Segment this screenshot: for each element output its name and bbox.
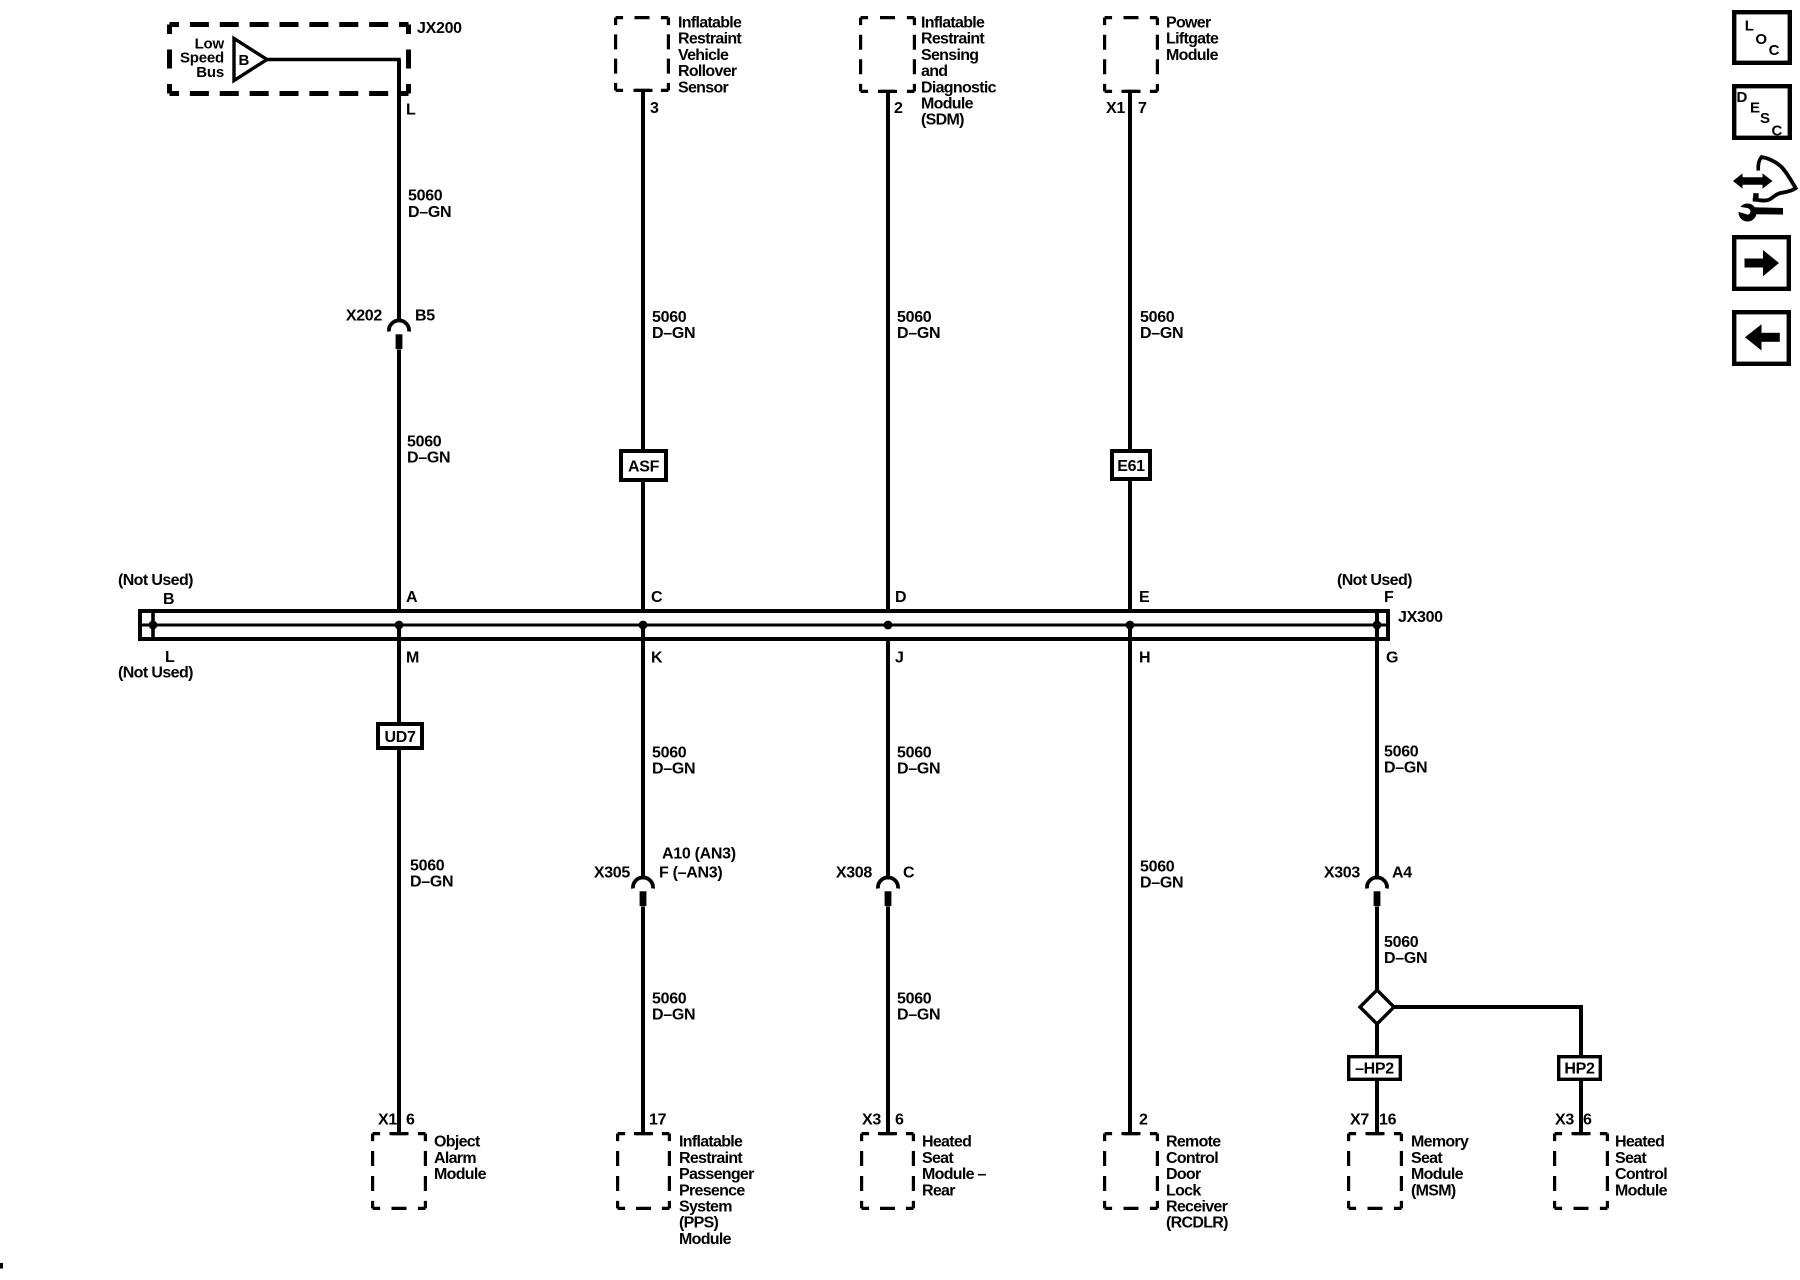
wire label 5060 D-GN (col G upper): [1384, 744, 1427, 777]
svg-text:5060: 5060: [408, 188, 443, 205]
svg-text:X1: X1: [378, 1112, 397, 1129]
svg-text:D–GN: D–GN: [1384, 760, 1427, 777]
svg-text:RemoteControlDoorLockReceiver(: RemoteControlDoorLockReceiver(RCDLR): [1166, 1134, 1228, 1232]
label E: [1139, 589, 1150, 606]
pin L label: [406, 102, 416, 119]
pin label X7: [1350, 1112, 1369, 1129]
svg-text:L: L: [406, 102, 416, 119]
svg-text:A: A: [406, 589, 418, 606]
svg-text:5060: 5060: [407, 434, 442, 451]
wire liftgate to E61: [1128, 93, 1132, 451]
hotlink icon curve: [1753, 157, 1796, 201]
svg-text:C: C: [1772, 122, 1783, 139]
pin 2 label (RCDLR): [1139, 1112, 1148, 1129]
svg-text:HeatedSeatModule –Rear: HeatedSeatModule –Rear: [922, 1134, 987, 1200]
wire X305 to PPS module: [641, 907, 645, 1135]
pin 3 label: [650, 100, 659, 117]
LOC button box: [1734, 12, 1790, 63]
svg-text:A4: A4: [1392, 865, 1412, 882]
svg-text:–HP2: –HP2: [1355, 1061, 1394, 1078]
power liftgate text: [1166, 15, 1219, 64]
object alarm module text: [434, 1134, 487, 1183]
pin 17 label: [649, 1112, 667, 1129]
label J: [895, 649, 904, 666]
back arrow button: [1734, 312, 1789, 364]
heated seat control module dashed box: [1555, 1132, 1608, 1208]
memory seat module dashed box: [1349, 1132, 1402, 1208]
svg-text:LowSpeedBus: LowSpeedBus: [180, 35, 225, 80]
wire label 5060 D-GN (col M): [410, 857, 453, 890]
splice pack JX300 bus bar outline: [140, 611, 1388, 639]
svg-text:D–GN: D–GN: [897, 325, 940, 342]
inline connector X303: [1367, 877, 1387, 906]
DESC button box: [1734, 86, 1790, 139]
svg-text:O: O: [1755, 31, 1767, 48]
label M: [406, 649, 419, 666]
inline connector X202 pin B5: [389, 320, 409, 349]
wire ASF to bus node C: [641, 480, 645, 639]
heated seat module rear dashed box: [862, 1132, 914, 1208]
heated seat module rear text: [922, 1134, 987, 1200]
svg-text:B5: B5: [415, 308, 435, 325]
svg-text:MemorySeatModule(MSM): MemorySeatModule(MSM): [1411, 1134, 1469, 1200]
wire SDM to bus node D: [886, 93, 890, 639]
svg-text:HP2: HP2: [1564, 1061, 1595, 1078]
svg-text:2: 2: [894, 100, 903, 117]
svg-text:6: 6: [895, 1112, 904, 1129]
label B5: [415, 308, 435, 325]
svg-text:J: J: [895, 649, 904, 666]
label B: [163, 591, 174, 608]
svg-text:S: S: [1760, 110, 1770, 127]
svg-text:L: L: [165, 649, 175, 666]
svg-text:C: C: [903, 865, 915, 882]
svg-text:B: B: [239, 52, 250, 69]
svg-text:ObjectAlarmModule: ObjectAlarmModule: [434, 1134, 487, 1183]
svg-text:6: 6: [1583, 1112, 1592, 1129]
svg-text:JX300: JX300: [1398, 609, 1443, 626]
svg-text:(Not Used): (Not Used): [1337, 572, 1412, 589]
svg-text:InflatableRestraintVehicleRoll: InflatableRestraintVehicleRolloverSensor: [678, 15, 742, 97]
splice diamond: [1360, 990, 1394, 1024]
svg-text:X202: X202: [346, 308, 383, 325]
svg-text:5060: 5060: [1384, 744, 1419, 761]
svg-text:D–GN: D–GN: [652, 325, 695, 342]
label D: [895, 589, 906, 606]
svg-text:H: H: [1139, 649, 1150, 666]
node B/L stub (not used): [149, 612, 158, 638]
svg-text:A10 (AN3): A10 (AN3): [662, 845, 736, 862]
wire label 5060 D-GN (col D top): [897, 309, 940, 342]
svg-text:D–GN: D–GN: [652, 761, 695, 778]
svg-text:E61: E61: [1117, 458, 1145, 475]
svg-text:G: G: [1386, 649, 1398, 666]
wire label 5060 D-GN (col C top): [652, 309, 695, 342]
wire X202 to bus node A: [397, 350, 401, 612]
memory seat module text: [1411, 1134, 1469, 1200]
svg-text:D: D: [1737, 89, 1748, 106]
pin label X1: [1106, 100, 1125, 117]
bus node E junction: [1126, 621, 1135, 630]
label X202: [346, 308, 383, 325]
pin 6 label (heated seat control): [1583, 1112, 1592, 1129]
svg-text:K: K: [651, 649, 663, 666]
svg-text:5060: 5060: [1140, 859, 1175, 876]
branch wire diamond to HP2: [1392, 1007, 1581, 1057]
wire diamond to -HP2: [1375, 1024, 1379, 1057]
svg-text:E: E: [1139, 589, 1150, 606]
svg-text:D–GN: D–GN: [1140, 325, 1183, 342]
svg-text:X303: X303: [1324, 865, 1361, 882]
svg-text:F: F: [1384, 589, 1394, 606]
svg-text:D–GN: D–GN: [408, 204, 451, 221]
pin 2 label: [894, 100, 903, 117]
svg-text:X1: X1: [1106, 100, 1125, 117]
junction block JX200 dashed outline: [170, 25, 409, 94]
bus node D junction: [884, 621, 893, 630]
object alarm module dashed box: [373, 1132, 426, 1208]
heated seat control module text: [1615, 1134, 1668, 1200]
svg-text:HeatedSeatControlModule: HeatedSeatControlModule: [1615, 1134, 1668, 1200]
svg-text:X308: X308: [836, 865, 873, 882]
svg-text:C: C: [1769, 42, 1780, 59]
label X308: [836, 865, 873, 882]
wire bus node H to RCDLR: [1128, 625, 1132, 1134]
wire from B symbol to pin L: [265, 60, 399, 322]
inline connector X308: [878, 877, 898, 906]
svg-text:JX200: JX200: [417, 20, 462, 37]
svg-text:(Not Used): (Not Used): [118, 665, 193, 682]
svg-text:D–GN: D–GN: [652, 1007, 695, 1024]
RPO label box HP2: [1559, 1057, 1601, 1080]
svg-text:X3: X3: [862, 1112, 881, 1129]
SDM text: [921, 15, 997, 129]
hotlink icon double arrow: [1733, 173, 1773, 188]
label A4: [1392, 865, 1412, 882]
svg-text:UD7: UD7: [384, 729, 416, 746]
pin label X3 (heated seat control): [1555, 1112, 1574, 1129]
bus node A junction: [395, 621, 404, 630]
svg-text:ASF: ASF: [628, 458, 660, 475]
wire label 5060 D-GN (col K lower): [652, 991, 695, 1024]
low speed bus text label: [180, 35, 225, 80]
svg-text:5060: 5060: [652, 309, 687, 326]
svg-text:6: 6: [406, 1112, 415, 1129]
svg-text:PowerLiftgateModule: PowerLiftgateModule: [1166, 15, 1219, 64]
svg-text:5060: 5060: [1384, 934, 1419, 951]
label (Not Used) bottom-left: [118, 665, 193, 682]
svg-text:F (–AN3): F (–AN3): [659, 865, 722, 882]
svg-text:X3: X3: [1555, 1112, 1574, 1129]
wire label 5060 D-GN (col E top): [1140, 309, 1183, 342]
svg-text:D–GN: D–GN: [1384, 950, 1427, 967]
wire label 5060 D-GN (col J lower): [897, 991, 940, 1024]
svg-text:X305: X305: [594, 865, 631, 882]
power liftgate module dashed box: [1105, 18, 1158, 93]
pin 16 label: [1379, 1112, 1397, 1129]
wire UD7 to object alarm module: [397, 748, 401, 1134]
label A: [406, 589, 418, 606]
bus node C junction: [639, 621, 648, 630]
wire label 5060 D-GN (above X202): [408, 188, 451, 221]
label (Not Used) top-right: [1337, 572, 1412, 589]
svg-text:D–GN: D–GN: [1140, 875, 1183, 892]
svg-text:E: E: [1750, 99, 1760, 116]
serial data symbol B (triangle): [234, 39, 267, 81]
label L: [165, 649, 175, 666]
RCDLR dashed box: [1105, 1132, 1158, 1208]
RPO label box -HP2: [1349, 1057, 1401, 1080]
forward arrow button: [1734, 237, 1789, 289]
wire bus node M to UD7: [397, 625, 401, 724]
label C (X308 pin): [903, 865, 915, 882]
rollover sensor text: [678, 15, 742, 97]
svg-text:X7: X7: [1350, 1112, 1369, 1129]
pin 7 label: [1138, 100, 1147, 117]
wire label 5060 D-GN (col G lower): [1384, 934, 1427, 967]
label K: [651, 649, 663, 666]
wire label 5060 D-GN (col K upper): [652, 745, 695, 778]
svg-text:5060: 5060: [652, 991, 687, 1008]
wire label 5060 D-GN (below X202): [407, 434, 450, 467]
svg-text:D–GN: D–GN: [897, 761, 940, 778]
svg-text:InflatableRestraintSensingandD: InflatableRestraintSensingandDiagnosticM…: [921, 15, 997, 129]
svg-text:D–GN: D–GN: [410, 874, 453, 891]
pin label X1 (object alarm): [378, 1112, 397, 1129]
svg-text:L: L: [1745, 18, 1754, 35]
pin label X3 (heated seat rear): [862, 1112, 881, 1129]
label JX200: [417, 20, 462, 37]
svg-text:C: C: [651, 589, 663, 606]
hotlink icon wrench: [1737, 204, 1783, 222]
bus bar inner conductor: [142, 624, 1386, 627]
svg-text:5060: 5060: [897, 309, 932, 326]
PPS module dashed box: [618, 1132, 670, 1208]
pin 6 label (heated seat rear): [895, 1112, 904, 1129]
label F: [1384, 589, 1394, 606]
label JX300: [1398, 609, 1443, 626]
svg-text:InflatableRestraintPassengerPr: InflatableRestraintPassengerPresenceSyst…: [679, 1134, 754, 1248]
SDM dashed box: [861, 18, 915, 93]
label X303: [1324, 865, 1361, 882]
pin 6 label (object alarm): [406, 1112, 415, 1129]
fuse label box E61: [1112, 451, 1150, 479]
svg-text:17: 17: [649, 1112, 667, 1129]
label X305: [594, 865, 631, 882]
label G: [1386, 649, 1398, 666]
svg-text:5060: 5060: [652, 745, 687, 762]
RPO label box UD7: [378, 724, 422, 748]
svg-text:3: 3: [650, 100, 659, 117]
svg-text:5060: 5060: [1140, 309, 1175, 326]
bus node F junction: [1373, 611, 1382, 629]
wire label 5060 D-GN (col H): [1140, 859, 1183, 892]
svg-text:B: B: [163, 591, 174, 608]
svg-text:2: 2: [1139, 1112, 1148, 1129]
inline connector X305: [633, 877, 653, 906]
wire bus node K to X305: [641, 625, 645, 880]
svg-text:5060: 5060: [897, 745, 932, 762]
svg-text:D–GN: D–GN: [407, 450, 450, 467]
svg-text:5060: 5060: [897, 991, 932, 1008]
label H: [1139, 649, 1150, 666]
svg-text:7: 7: [1138, 100, 1147, 117]
wire label 5060 D-GN (col J upper): [897, 745, 940, 778]
wire HP2 to heated seat control module: [1579, 1079, 1583, 1134]
label A10 (AN3): [662, 845, 736, 862]
svg-text:D–GN: D–GN: [897, 1007, 940, 1024]
RCDLR text: [1166, 1134, 1228, 1232]
wire X303 to splice diamond: [1375, 907, 1379, 993]
svg-text:(Not Used): (Not Used): [118, 572, 193, 589]
wire -HP2 to MSM: [1375, 1079, 1379, 1134]
wire E61 to bus node E: [1128, 479, 1132, 639]
label F (-AN3): [659, 865, 722, 882]
wire bus node J to X308: [886, 639, 890, 880]
fuse label box ASF: [621, 451, 666, 480]
svg-text:M: M: [406, 649, 419, 666]
svg-text:16: 16: [1379, 1112, 1397, 1129]
label C: [651, 589, 663, 606]
wire X308 to heated seat module: [886, 907, 890, 1135]
svg-text:D: D: [895, 589, 906, 606]
wire bus node G to X303: [1375, 625, 1379, 880]
page corner mark: [0, 1263, 3, 1269]
PPS module text: [679, 1134, 754, 1248]
svg-text:5060: 5060: [410, 857, 445, 874]
inflatable restraint vehicle rollover sensor dashed box: [616, 18, 669, 92]
wire rollover sensor to ASF: [641, 92, 645, 451]
label (Not Used) top-left: [118, 572, 193, 589]
